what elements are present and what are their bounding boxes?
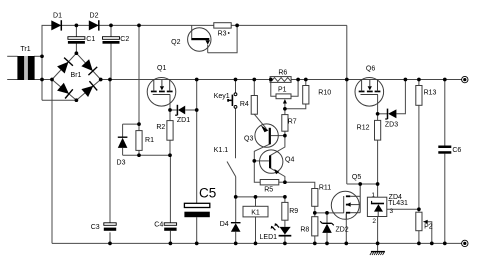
svg-text:R3: R3 [218, 30, 227, 37]
svg-text:C3: C3 [91, 224, 100, 231]
svg-text:C4: C4 [154, 221, 163, 228]
svg-text:R2: R2 [156, 124, 165, 131]
svg-text:R11: R11 [319, 184, 331, 191]
svg-text:R13: R13 [424, 90, 437, 97]
svg-text:R5: R5 [264, 187, 273, 194]
svg-text:R7: R7 [288, 118, 297, 125]
svg-text:Q2: Q2 [171, 39, 180, 46]
svg-text:2: 2 [372, 218, 376, 225]
svg-text:3: 3 [390, 208, 394, 215]
svg-text:R4: R4 [240, 101, 249, 108]
svg-text:LED1: LED1 [260, 234, 278, 241]
svg-text:K1: K1 [251, 209, 260, 216]
svg-text:Tr1: Tr1 [20, 46, 30, 53]
svg-text:ZD1: ZD1 [177, 117, 190, 124]
svg-text:Q3: Q3 [244, 136, 253, 143]
svg-text:R10: R10 [318, 90, 331, 97]
svg-text:ZD2: ZD2 [335, 227, 348, 234]
svg-text:R9: R9 [289, 208, 298, 215]
svg-text:D3: D3 [117, 159, 126, 166]
svg-text:Q5: Q5 [352, 174, 361, 181]
svg-text:D1: D1 [53, 13, 62, 20]
svg-text:C2: C2 [120, 36, 129, 43]
svg-text:R8: R8 [300, 227, 309, 234]
svg-text:C6: C6 [452, 147, 461, 154]
svg-text:Br1: Br1 [71, 72, 82, 79]
svg-text:C1: C1 [86, 36, 95, 43]
svg-text:C5: C5 [199, 186, 216, 201]
svg-text:Q1: Q1 [157, 65, 166, 72]
svg-text:P1: P1 [278, 87, 287, 94]
svg-text:D2: D2 [90, 13, 99, 20]
svg-text:1: 1 [371, 192, 375, 199]
svg-text:P2: P2 [424, 224, 433, 231]
svg-text:Q4: Q4 [285, 157, 294, 164]
svg-text:R1: R1 [145, 137, 154, 144]
svg-text:Q6: Q6 [366, 66, 375, 73]
svg-text:TL431: TL431 [388, 200, 408, 207]
svg-text:R6: R6 [278, 70, 287, 77]
svg-text:K1.1: K1.1 [214, 147, 229, 154]
svg-text:D4: D4 [220, 221, 229, 228]
svg-text:ZD3: ZD3 [385, 121, 398, 128]
svg-text:Key1: Key1 [214, 93, 230, 100]
svg-text:R12: R12 [357, 124, 370, 131]
